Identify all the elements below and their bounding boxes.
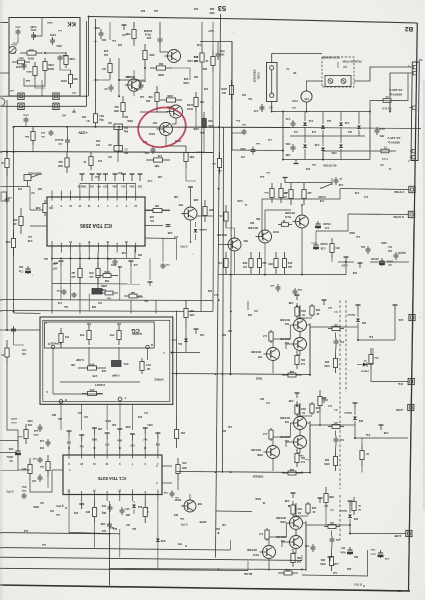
capacitor C21 near right	[395, 252, 397, 255]
svg-text:R5u: R5u	[353, 555, 358, 557]
svg-text:C6B: C6B	[297, 288, 302, 290]
svg-text:R38: R38	[91, 305, 96, 307]
svg-text:R3u: R3u	[296, 556, 301, 558]
wire t3 emitter down	[268, 559, 270, 572]
junction	[282, 111, 284, 113]
svg-text:TR3: TR3	[284, 420, 289, 423]
capacitor C09	[130, 261, 132, 266]
svg-text:1K: 1K	[205, 59, 208, 62]
wire t up3	[157, 108, 168, 112]
junction extra	[301, 472, 303, 474]
svg-text:R50: R50	[53, 261, 58, 263]
svg-text:R26: R26	[324, 360, 329, 362]
svg-text:47u: 47u	[374, 356, 379, 359]
wire bridge left	[282, 112, 284, 160]
junction	[306, 111, 308, 113]
wire tr5 right	[197, 215, 213, 217]
ground bridge	[295, 160, 297, 164]
degauss coil	[267, 63, 278, 102]
resistor sync extra b	[280, 183, 282, 189]
svg-text:98g: 98g	[123, 151, 128, 154]
wire tr14 base	[140, 111, 168, 113]
junction	[68, 447, 70, 449]
wire left stub 452	[0, 452, 17, 454]
resistor R404 100K	[65, 52, 67, 56]
capacitor C33 above IC2	[91, 174, 93, 181]
wire left-edge stub	[0, 440, 3, 442]
svg-text:1uK: 1uK	[227, 425, 232, 427]
svg-text:R18: R18	[103, 49, 108, 52]
svg-text:TR8: TR8	[197, 502, 202, 505]
op-amp U-IC2 TDA 2595 body	[47, 197, 145, 246]
svg-text:TR5: TR5	[178, 203, 183, 206]
svg-text:C12: C12	[344, 121, 349, 124]
capacitor C50 left	[47, 439, 49, 442]
svg-text:TR2: TR2	[284, 341, 289, 344]
resistor R46 10K	[44, 200, 46, 204]
wire tr8	[177, 480, 179, 490]
resistor right col f	[325, 487, 327, 494]
resistor R29 on bus (BLUE)	[278, 572, 284, 574]
mains connector CC	[411, 62, 419, 161]
capacitor C62 bottom	[109, 521, 111, 524]
svg-text:CC: CC	[419, 58, 423, 62]
junction	[230, 373, 232, 375]
svg-text:2k2: 2k2	[287, 265, 292, 268]
IC1 pin stub (bottom)	[81, 495, 83, 502]
svg-text:1uu: 1uu	[55, 513, 60, 515]
wire service	[27, 181, 29, 187]
svg-text:33u: 33u	[63, 305, 68, 307]
svg-text:R8g: R8g	[101, 511, 106, 513]
svg-text:R61: R61	[21, 467, 26, 470]
svg-text:R39: R39	[189, 313, 194, 316]
wire top rail from flyback	[200, 42, 232, 151]
IC2 pin 14 (bottom)	[70, 246, 72, 253]
wire stage t1t2	[299, 332, 301, 338]
wire red conn	[344, 326, 358, 328]
IC2 pin 3 (bottom)	[51, 246, 53, 253]
wire pwr sync	[389, 101, 391, 112]
wire right col v	[394, 310, 396, 340]
svg-text:C25: C25	[203, 87, 208, 89]
svg-text:10n: 10n	[107, 155, 112, 157]
svg-text:C24: C24	[121, 185, 126, 188]
svg-text:2k2: 2k2	[114, 105, 119, 108]
resistor right col a	[370, 348, 372, 355]
resistor 100K b	[160, 99, 167, 101]
wire crt v4	[147, 349, 149, 360]
wire conn pin3	[409, 107, 413, 109]
wire left col	[6, 100, 8, 330]
IC2 pin stub (bottom)	[116, 246, 118, 253]
page right border	[409, 23, 418, 591]
capacitor C63	[109, 504, 111, 507]
IC1 pin stub (bottom)	[144, 495, 146, 502]
svg-text:+128V: +128V	[77, 131, 87, 135]
svg-text:C13: C13	[308, 119, 313, 122]
wire blue stage feed	[216, 510, 253, 513]
svg-text:56K: 56K	[194, 75, 199, 77]
wire dev	[67, 127, 69, 137]
svg-text:1uu: 1uu	[179, 517, 184, 519]
wire coil bottom	[272, 102, 283, 112]
capacitor 447 top	[123, 25, 125, 30]
svg-text:R32: R32	[315, 406, 320, 409]
wire t2 emitter	[297, 351, 300, 356]
svg-text:D12: D12	[137, 505, 142, 507]
wire ic1 pin5 down	[157, 501, 159, 569]
svg-text:100K: 100K	[183, 81, 189, 84]
svg-text:TR9: TR9	[243, 239, 248, 242]
IC1 right pin 3	[162, 465, 172, 467]
junction	[119, 447, 121, 449]
svg-text:4k7: 4k7	[101, 67, 106, 70]
svg-text:5kB: 5kB	[58, 164, 63, 167]
svg-text:10K: 10K	[71, 363, 76, 366]
svg-text:10K: 10K	[148, 95, 153, 98]
svg-text:C34: C34	[137, 185, 142, 188]
svg-text:C2R: C2R	[384, 557, 389, 559]
capacitor C403	[23, 62, 25, 65]
junction	[282, 159, 284, 161]
transistor TR3	[294, 417, 307, 430]
svg-text:C3B: C3B	[288, 399, 293, 401]
svg-text:R62: R62	[51, 413, 56, 415]
junction	[88, 16, 90, 18]
svg-text:C37: C37	[117, 171, 122, 173]
resistor R33 1K (GREEN)	[296, 403, 298, 405]
IC2 pin stub (bottom)	[60, 246, 62, 253]
svg-text:ZD1: ZD1	[361, 321, 366, 323]
svg-text:9kg: 9kg	[99, 118, 104, 121]
resistor extra t3	[212, 50, 214, 57]
svg-text:4u0u: 4u0u	[340, 551, 346, 554]
svg-text:100k: 100k	[149, 53, 155, 56]
resistor R30 (BLUE)	[292, 549, 294, 554]
wire t up2	[118, 80, 120, 96]
capacitor C22	[359, 263, 361, 268]
wire stage right v	[309, 323, 311, 373]
svg-text:IC2 TDA 2595: IC2 TDA 2595	[80, 222, 112, 228]
svg-text:IC1 TDA 8375: IC1 TDA 8375	[97, 476, 125, 481]
transistor TR10 sync	[259, 230, 272, 243]
wire sync bottom rail	[219, 274, 311, 276]
svg-text:C3B: C3B	[284, 499, 289, 501]
wire bus4	[0, 568, 248, 570]
svg-text:O TR4: O TR4	[180, 245, 188, 248]
switch sync sel	[322, 184, 331, 188]
electrolytic C66	[17, 448, 19, 451]
svg-text:R23: R23	[209, 7, 214, 10]
svg-text:R41: R41	[95, 139, 100, 142]
IC2 pin 6 (top)	[98, 191, 100, 198]
svg-text:TR13: TR13	[148, 132, 155, 135]
svg-text:860: 860	[208, 208, 213, 211]
svg-text:C27: C27	[94, 175, 99, 177]
resistor CRT third	[60, 328, 62, 334]
wire left-edge stub	[0, 329, 3, 331]
junction	[95, 41, 97, 43]
connector +110B	[408, 404, 414, 410]
svg-text:C15b: C15b	[237, 199, 243, 201]
svg-text:33K: 33K	[112, 423, 117, 425]
svg-text:R45: R45	[37, 187, 42, 190]
svg-text:TR14: TR14	[186, 107, 193, 110]
mains pin 3	[413, 106, 416, 109]
wire v61 below IC2	[60, 272, 62, 300]
wire t up8	[172, 67, 190, 69]
wire v50	[51, 246, 53, 314]
svg-text:C19: C19	[354, 191, 359, 194]
wire CRT to IC1 riser	[60, 404, 62, 430]
svg-text:C23b: C23b	[381, 241, 387, 243]
capacitor C17 right	[376, 127, 378, 130]
transistor TR5	[184, 207, 197, 220]
svg-text:R51: R51	[335, 246, 340, 248]
wire right rail sync	[370, 261, 409, 263]
svg-text:TR4: TR4	[284, 439, 289, 442]
svg-text:C13: C13	[285, 117, 290, 120]
resistor 2k2 mid	[122, 96, 124, 103]
svg-text:R2g: R2g	[289, 370, 294, 372]
svg-text:RV2: RV2	[89, 388, 94, 391]
svg-text:TR15: TR15	[144, 33, 151, 37]
resistor R403 100K	[44, 58, 46, 62]
svg-text:C65: C65	[73, 511, 78, 513]
resistor R33 1K (RED)	[296, 305, 298, 307]
svg-text:1K8: 1K8	[101, 369, 106, 372]
inspection mark (red circle)	[134, 103, 190, 152]
scan shade left edge	[0, 0, 3, 600]
wire dashed v1	[339, 301, 341, 490]
IC2 pin 16 (top)	[79, 191, 81, 198]
wire sync loop2	[316, 214, 348, 231]
resistor crt below	[25, 424, 27, 430]
wire bus2 end	[230, 540, 232, 550]
junction	[118, 95, 120, 97]
svg-text:PV6: PV6	[79, 333, 84, 336]
svg-text:C10: C10	[57, 301, 62, 303]
wire blue conn	[336, 524, 350, 526]
svg-text:TR11: TR11	[284, 215, 291, 218]
capacitor pr4	[243, 129, 245, 131]
svg-text:22p/1B: 22p/1B	[398, 251, 406, 253]
svg-text:C4B: C4B	[27, 239, 32, 242]
wire bus1	[0, 533, 110, 534]
wire rail x222 (green drive)	[223, 127, 224, 472]
svg-text:R1u: R1u	[235, 119, 240, 121]
resistor sync x	[331, 238, 333, 244]
resistor extra t5	[90, 152, 92, 157]
svg-text:C44: C44	[97, 159, 102, 162]
wire bottom right v	[302, 555, 368, 576]
svg-text:56u: 56u	[247, 97, 252, 99]
capacitor C04 100p	[100, 29, 102, 33]
wire t up6	[186, 168, 196, 181]
IC2 pin 17 (bottom)	[88, 246, 90, 253]
IC1 pin 13 (bottom)	[68, 495, 70, 502]
svg-text:C60: C60	[66, 441, 71, 443]
resistor R402 47K	[20, 52, 27, 54]
svg-text:470: 470	[242, 265, 247, 268]
diode C1 box	[114, 146, 123, 152]
svg-text:D1u: D1u	[177, 342, 182, 344]
wire t l7	[41, 80, 43, 96]
svg-text:BC546B: BC546B	[247, 548, 257, 551]
svg-text:1000u: 1000u	[386, 260, 393, 262]
resistor 50B b	[185, 146, 187, 153]
svg-text:C1u: C1u	[18, 270, 23, 273]
IC1 pin 9 (top)	[119, 448, 121, 455]
svg-text:100K: 100K	[69, 57, 75, 60]
svg-text:R42: R42	[207, 289, 212, 292]
svg-text:1N4148: 1N4148	[198, 228, 206, 231]
svg-text:47u: 47u	[265, 171, 269, 174]
wire t up4	[196, 112, 204, 127]
IC2 pin 3 (top)	[125, 191, 127, 198]
power resistor 300R	[92, 289, 102, 295]
wire left-edge stub	[0, 72, 3, 74]
resistor right col c	[319, 390, 321, 397]
svg-text:C63: C63	[101, 529, 106, 531]
svg-text:1K: 1K	[282, 219, 285, 222]
transistor TR13	[160, 123, 173, 136]
fuse F1	[374, 150, 381, 152]
svg-text:4X GP10D: 4X GP10D	[323, 164, 336, 168]
wire hsync	[348, 213, 408, 216]
svg-text:R100: R100	[220, 87, 226, 90]
svg-text:4B4: 4B4	[125, 513, 130, 516]
svg-text:BC546B: BC546B	[280, 435, 290, 438]
wire IC2 pin drop	[88, 253, 90, 259]
svg-text:10K: 10K	[182, 461, 187, 464]
svg-text:50/60 Hz: 50/60 Hz	[388, 141, 401, 145]
svg-text:R57b: R57b	[105, 419, 111, 421]
junction +128V	[95, 126, 97, 128]
wire bridge mid	[290, 135, 365, 137]
svg-text:C404: C404	[62, 54, 68, 57]
svg-text:4k7: 4k7	[95, 143, 100, 146]
svg-text:T 2 A: T 2 A	[382, 157, 388, 160]
wire mains rail2	[390, 73, 411, 112]
svg-text:R4x: R4x	[221, 333, 226, 336]
wire crossing h310	[0, 311, 213, 312]
svg-text:BC546: BC546	[138, 79, 146, 82]
wire left low	[6, 365, 8, 430]
svg-text:470/: 470/	[220, 49, 225, 52]
diode D7 bridge	[339, 145, 343, 148]
wire coil top	[272, 54, 322, 63]
wire x176 v	[176, 311, 178, 421]
svg-text:C2B: C2B	[167, 231, 172, 233]
link pad J2	[53, 93, 59, 99]
svg-text:18K: 18K	[190, 309, 195, 312]
junction	[176, 373, 178, 375]
wire TR4 down	[190, 220, 192, 242]
capacitor 4u7 (RED)	[296, 295, 298, 300]
svg-text:C4u8: C4u8	[23, 114, 29, 117]
svg-text:TR16: TR16	[124, 75, 130, 77]
transistor TR6	[290, 536, 303, 549]
svg-text:4u9: 4u9	[89, 275, 94, 278]
diode D10	[185, 326, 187, 352]
transistor TR15	[168, 50, 181, 63]
IC1 pin 19 (top)	[93, 448, 95, 455]
resistor R26 100K (GREEN)	[335, 451, 337, 457]
svg-text:H SYNC: H SYNC	[393, 215, 404, 219]
svg-text:98g: 98g	[123, 130, 128, 133]
wire left-edge stub	[0, 532, 3, 534]
transistor TR7	[267, 348, 280, 361]
wire sync rail ext	[310, 262, 346, 275]
junction	[171, 352, 173, 354]
bus RED	[172, 374, 311, 375]
wire IC2 pin drop	[70, 253, 72, 259]
svg-text:C19: C19	[319, 199, 324, 201]
svg-text:C34: C34	[193, 7, 198, 10]
wire t up1	[109, 22, 111, 40]
resistor R26 100K (RED)	[335, 353, 337, 359]
capacitor col b	[39, 457, 41, 459]
wire stage supply	[296, 401, 298, 407]
resistor left of IC2	[20, 208, 22, 217]
diode D1 1N4004	[357, 364, 363, 366]
wire stage t3 col	[273, 325, 290, 348]
wire stage t3 col	[269, 523, 286, 546]
wire crt v3	[118, 347, 120, 360]
svg-text:PT21: PT21	[291, 99, 297, 102]
capacitor C402 470p	[33, 32, 35, 35]
svg-text:13S/: 13S/	[370, 548, 375, 550]
wire bus2	[0, 548, 231, 550]
svg-text:BC546B: BC546B	[251, 350, 261, 353]
resistor R13 300R	[201, 45, 203, 53]
push button contacts	[325, 76, 351, 87]
svg-text:R52b: R52b	[349, 231, 355, 233]
svg-text:R53: R53	[287, 261, 292, 264]
svg-text:TP2: TP2	[177, 542, 182, 545]
mains pin 4	[412, 150, 415, 153]
svg-text:H61: H61	[18, 265, 23, 268]
IC1 pin 6 (top)	[144, 448, 146, 455]
electrolytic C17 10u	[317, 221, 319, 224]
svg-text:PV4: PV4	[64, 335, 69, 338]
resistor 10R below	[97, 262, 99, 269]
svg-text:H2: H2	[62, 114, 66, 118]
resistor R56 1K	[275, 252, 277, 259]
junction	[13, 151, 15, 153]
svg-text:56u: 56u	[123, 115, 128, 117]
svg-text:R33: R33	[297, 507, 302, 510]
svg-text:10K: 10K	[174, 195, 179, 198]
wire ew4	[119, 127, 146, 153]
svg-text:22n: 22n	[131, 527, 136, 529]
svg-text:2k2: 2k2	[221, 91, 226, 94]
svg-text:R4B: R4B	[182, 466, 187, 469]
svg-text:R6B: R6B	[92, 438, 97, 440]
capacitor right col e	[380, 425, 382, 430]
wire button to PTC	[307, 81, 323, 91]
wire KK internal 2	[13, 52, 17, 54]
wire h283	[52, 283, 140, 286]
svg-text:3u7lB: 3u7lB	[394, 534, 401, 537]
resistor 1K base	[278, 224, 282, 226]
svg-text:H.PREG: H.PREG	[132, 332, 142, 336]
wire CRT to IC1 riser	[106, 404, 108, 430]
wire extra t1	[96, 79, 111, 81]
resistor 50B c	[146, 159, 154, 161]
